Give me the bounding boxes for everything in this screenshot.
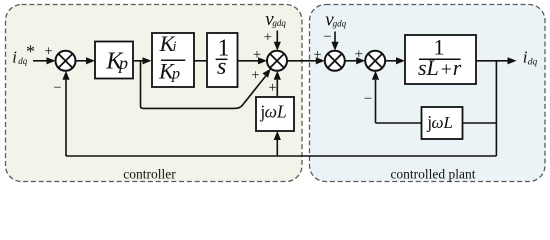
svg-text:−: −	[364, 91, 372, 107]
block 1/s	[207, 33, 238, 87]
block jwL plant	[422, 107, 463, 139]
wire: Ki/Kp to 1/s	[194, 60, 207, 62]
wire: output branch vertical down	[495, 61, 497, 156]
block Ki/Kp	[152, 31, 194, 87]
wire: jwL plant left connection	[376, 122, 422, 124]
wire: Kp to Ki/Kp	[133, 57, 152, 64]
svg-text:dq: dq	[528, 58, 538, 68]
svg-text:+: +	[44, 44, 52, 60]
wire: jwL up into S2	[274, 71, 281, 97]
input label i_dq*	[12, 42, 35, 67]
summing junction S2	[267, 51, 287, 71]
svg-text:i: i	[173, 40, 177, 55]
wire: jwL plant right connection	[463, 122, 497, 124]
block jwL controller	[256, 97, 294, 131]
output label i_dq	[523, 47, 538, 67]
svg-text:+: +	[314, 47, 322, 63]
label v_gdq controller	[265, 9, 286, 30]
wire: feedback up into jwL controller	[274, 131, 281, 156]
svg-text:−: −	[323, 29, 331, 45]
wire: v_gdq down into S2	[274, 31, 281, 51]
wire: S2 to S3	[287, 57, 325, 64]
wire: jwL plant feedback up into S4	[372, 71, 379, 123]
controller region dashed box	[6, 5, 303, 182]
wire: feedback up into summing junction S1	[62, 71, 69, 156]
summing junction S3	[325, 51, 345, 71]
svg-text:ωL: ωL	[265, 101, 287, 121]
summing junction S1	[56, 51, 76, 71]
wire: direct path horizontal	[143, 105, 243, 108]
svg-text:s: s	[217, 54, 226, 80]
svg-text:controlled plant: controlled plant	[390, 167, 475, 182]
svg-text:+: +	[355, 47, 363, 63]
svg-text:+: +	[253, 47, 261, 63]
svg-text:gdq: gdq	[272, 18, 286, 28]
svg-text:p: p	[171, 66, 180, 83]
svg-text:+: +	[441, 59, 452, 81]
summing junction S4	[365, 51, 385, 71]
svg-text:ωL: ωL	[432, 113, 453, 132]
wire: S1 to Kp	[76, 57, 96, 64]
svg-text:gdq: gdq	[333, 19, 347, 29]
svg-text:+: +	[269, 80, 277, 96]
label v_gdq plant	[325, 9, 346, 30]
controlled plant region dashed box	[310, 5, 546, 182]
svg-text:r: r	[453, 55, 462, 80]
svg-text:+: +	[251, 67, 259, 83]
svg-text:*: *	[26, 42, 35, 62]
wire: global feedback horizontal	[66, 155, 496, 157]
wire: S3 to S4	[345, 57, 365, 64]
block Kp	[95, 42, 133, 79]
wire: direct path branch down	[141, 61, 144, 109]
svg-text:−: −	[53, 80, 61, 96]
wire: S4 to plant block	[385, 57, 405, 64]
svg-text:sL: sL	[418, 55, 439, 80]
svg-text:controller: controller	[123, 167, 176, 182]
wire: direct path diagonal into S2	[242, 69, 271, 106]
wire: plant block to output i_dq	[476, 57, 517, 64]
wire: v_gdq down into S3	[331, 32, 338, 51]
block 1/(sL+r)	[405, 35, 476, 84]
svg-text:+: +	[264, 29, 272, 45]
wire: 1/s to S2	[238, 57, 268, 64]
wire: input arrow into S1	[33, 57, 56, 64]
svg-text:p: p	[117, 53, 128, 73]
svg-text:i: i	[12, 47, 17, 66]
